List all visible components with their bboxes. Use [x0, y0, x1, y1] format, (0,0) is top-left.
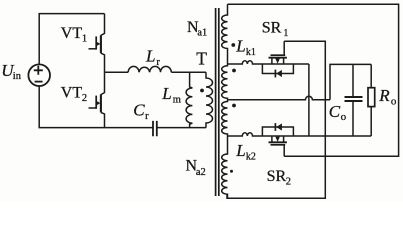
svg-text:T: T — [196, 48, 207, 68]
node: primary polarity dot — [200, 89, 204, 93]
capacitor Cr — [105, 127, 190, 129]
svg-text:SR: SR — [262, 20, 282, 37]
wire: Lr to transformer — [171, 71, 206, 73]
inductor Lr — [128, 66, 171, 72]
winding secondary 1 — [222, 64, 228, 100]
inductor Lm — [186, 72, 192, 127]
wire: secondary 1 to SR1 with leakage Lk1 — [228, 61, 309, 64]
wire: input top rail — [39, 14, 104, 65]
svg-text:L: L — [161, 84, 171, 103]
winding secondary 2 — [222, 100, 228, 136]
svg-text:C: C — [329, 102, 341, 121]
svg-text:r: r — [156, 57, 160, 68]
node: secondary 1 polarity dot — [232, 69, 236, 73]
node: secondary 2 polarity dot — [232, 104, 236, 108]
op SR2 mosfet — [269, 136, 287, 156]
winding Na2 (auxiliary) — [222, 136, 228, 198]
winding Na1 (auxiliary) — [222, 4, 228, 64]
diode: SR2 body diode branch — [262, 127, 293, 136]
svg-text:R: R — [378, 86, 390, 105]
transistor VT2 — [89, 72, 105, 127]
svg-text:C: C — [133, 100, 145, 119]
svg-text:2: 2 — [82, 93, 87, 104]
svg-text:VT: VT — [61, 25, 83, 42]
capacitor Co — [352, 64, 354, 136]
diode: SR1 body diode branch — [262, 64, 293, 74]
svg-text:SR: SR — [267, 168, 287, 185]
svg-text:L: L — [235, 141, 245, 160]
wire: SR2 gate loop to Na1 — [228, 4, 399, 156]
wire: secondary 2 to SR2 with leakage Lk2 — [228, 133, 372, 136]
wire: Cr to Lm bottom — [189, 127, 206, 129]
wire: input bottom rail — [39, 86, 104, 128]
svg-text:L: L — [145, 47, 155, 66]
transformer T primary winding — [206, 72, 213, 127]
svg-text:r: r — [145, 111, 149, 122]
transformer core — [216, 8, 219, 196]
svg-text:1: 1 — [82, 33, 87, 44]
node: Na2 polarity dot — [230, 170, 233, 173]
svg-text:VT: VT — [61, 84, 83, 101]
svg-text:k2: k2 — [246, 152, 256, 163]
svg-text:a2: a2 — [196, 167, 206, 178]
svg-text:2: 2 — [286, 177, 291, 188]
wire: SR1 source drop to bottom rail — [308, 64, 310, 136]
svg-text:o: o — [341, 111, 347, 123]
wire: riser from center tap to output top rail — [330, 64, 371, 99]
svg-text:k1: k1 — [246, 47, 256, 58]
wire: half-bridge midpoint to resonant tank — [105, 71, 129, 73]
svg-text:in: in — [13, 71, 22, 82]
wire: center tap to output plus (hop over SR1 drop) — [228, 96, 331, 99]
svg-text:1: 1 — [283, 28, 288, 39]
source U_in — [28, 64, 50, 86]
svg-text:L: L — [235, 37, 245, 56]
node: Na1 polarity dot — [231, 43, 235, 47]
svg-text:o: o — [391, 95, 397, 107]
op SR1 mosfet — [269, 41, 287, 64]
transistor VT1 — [89, 14, 105, 73]
wire: SR1 gate loop to Na2 — [227, 41, 325, 198]
svg-text:m: m — [173, 95, 181, 106]
svg-text:a1: a1 — [197, 28, 207, 39]
resistor Ro — [370, 64, 372, 136]
